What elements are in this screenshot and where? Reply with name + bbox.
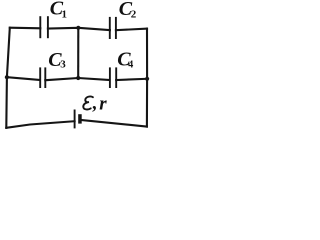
wire left edge — [6, 28, 10, 128]
svg-text:4: 4 — [128, 59, 133, 70]
wire middle-left segment — [7, 77, 40, 80]
junction node middle left — [5, 75, 9, 79]
capacitor C3 plates — [39, 67, 41, 88]
svg-text:r: r — [99, 94, 107, 115]
wire middle vertical branch — [77, 28, 79, 78]
wire bottom-right segment — [82, 120, 147, 127]
junction node middle center — [76, 76, 80, 80]
battery long plate (positive) — [74, 110, 76, 129]
svg-text:3: 3 — [60, 59, 66, 71]
capacitor C4 plates — [109, 67, 111, 88]
svg-text:1: 1 — [62, 9, 68, 21]
junction node top middle — [76, 26, 80, 30]
wire bottom-left segment — [6, 121, 74, 128]
wire middle-right segment — [116, 79, 147, 80]
battery short thick plate (negative) — [78, 114, 82, 123]
wire middle-center segment — [45, 78, 109, 80]
svg-text:,: , — [92, 93, 98, 114]
junction node middle right — [145, 77, 149, 81]
label EMF script-E — [83, 96, 93, 109]
capacitor C2 plates — [109, 17, 111, 39]
svg-text:2: 2 — [131, 8, 137, 20]
capacitor C1 plates — [39, 16, 41, 38]
wire top-left segment — [10, 27, 41, 30]
wire right edge — [146, 29, 148, 127]
wire top-right segment — [116, 29, 147, 31]
wire top-middle segment — [48, 28, 110, 30]
